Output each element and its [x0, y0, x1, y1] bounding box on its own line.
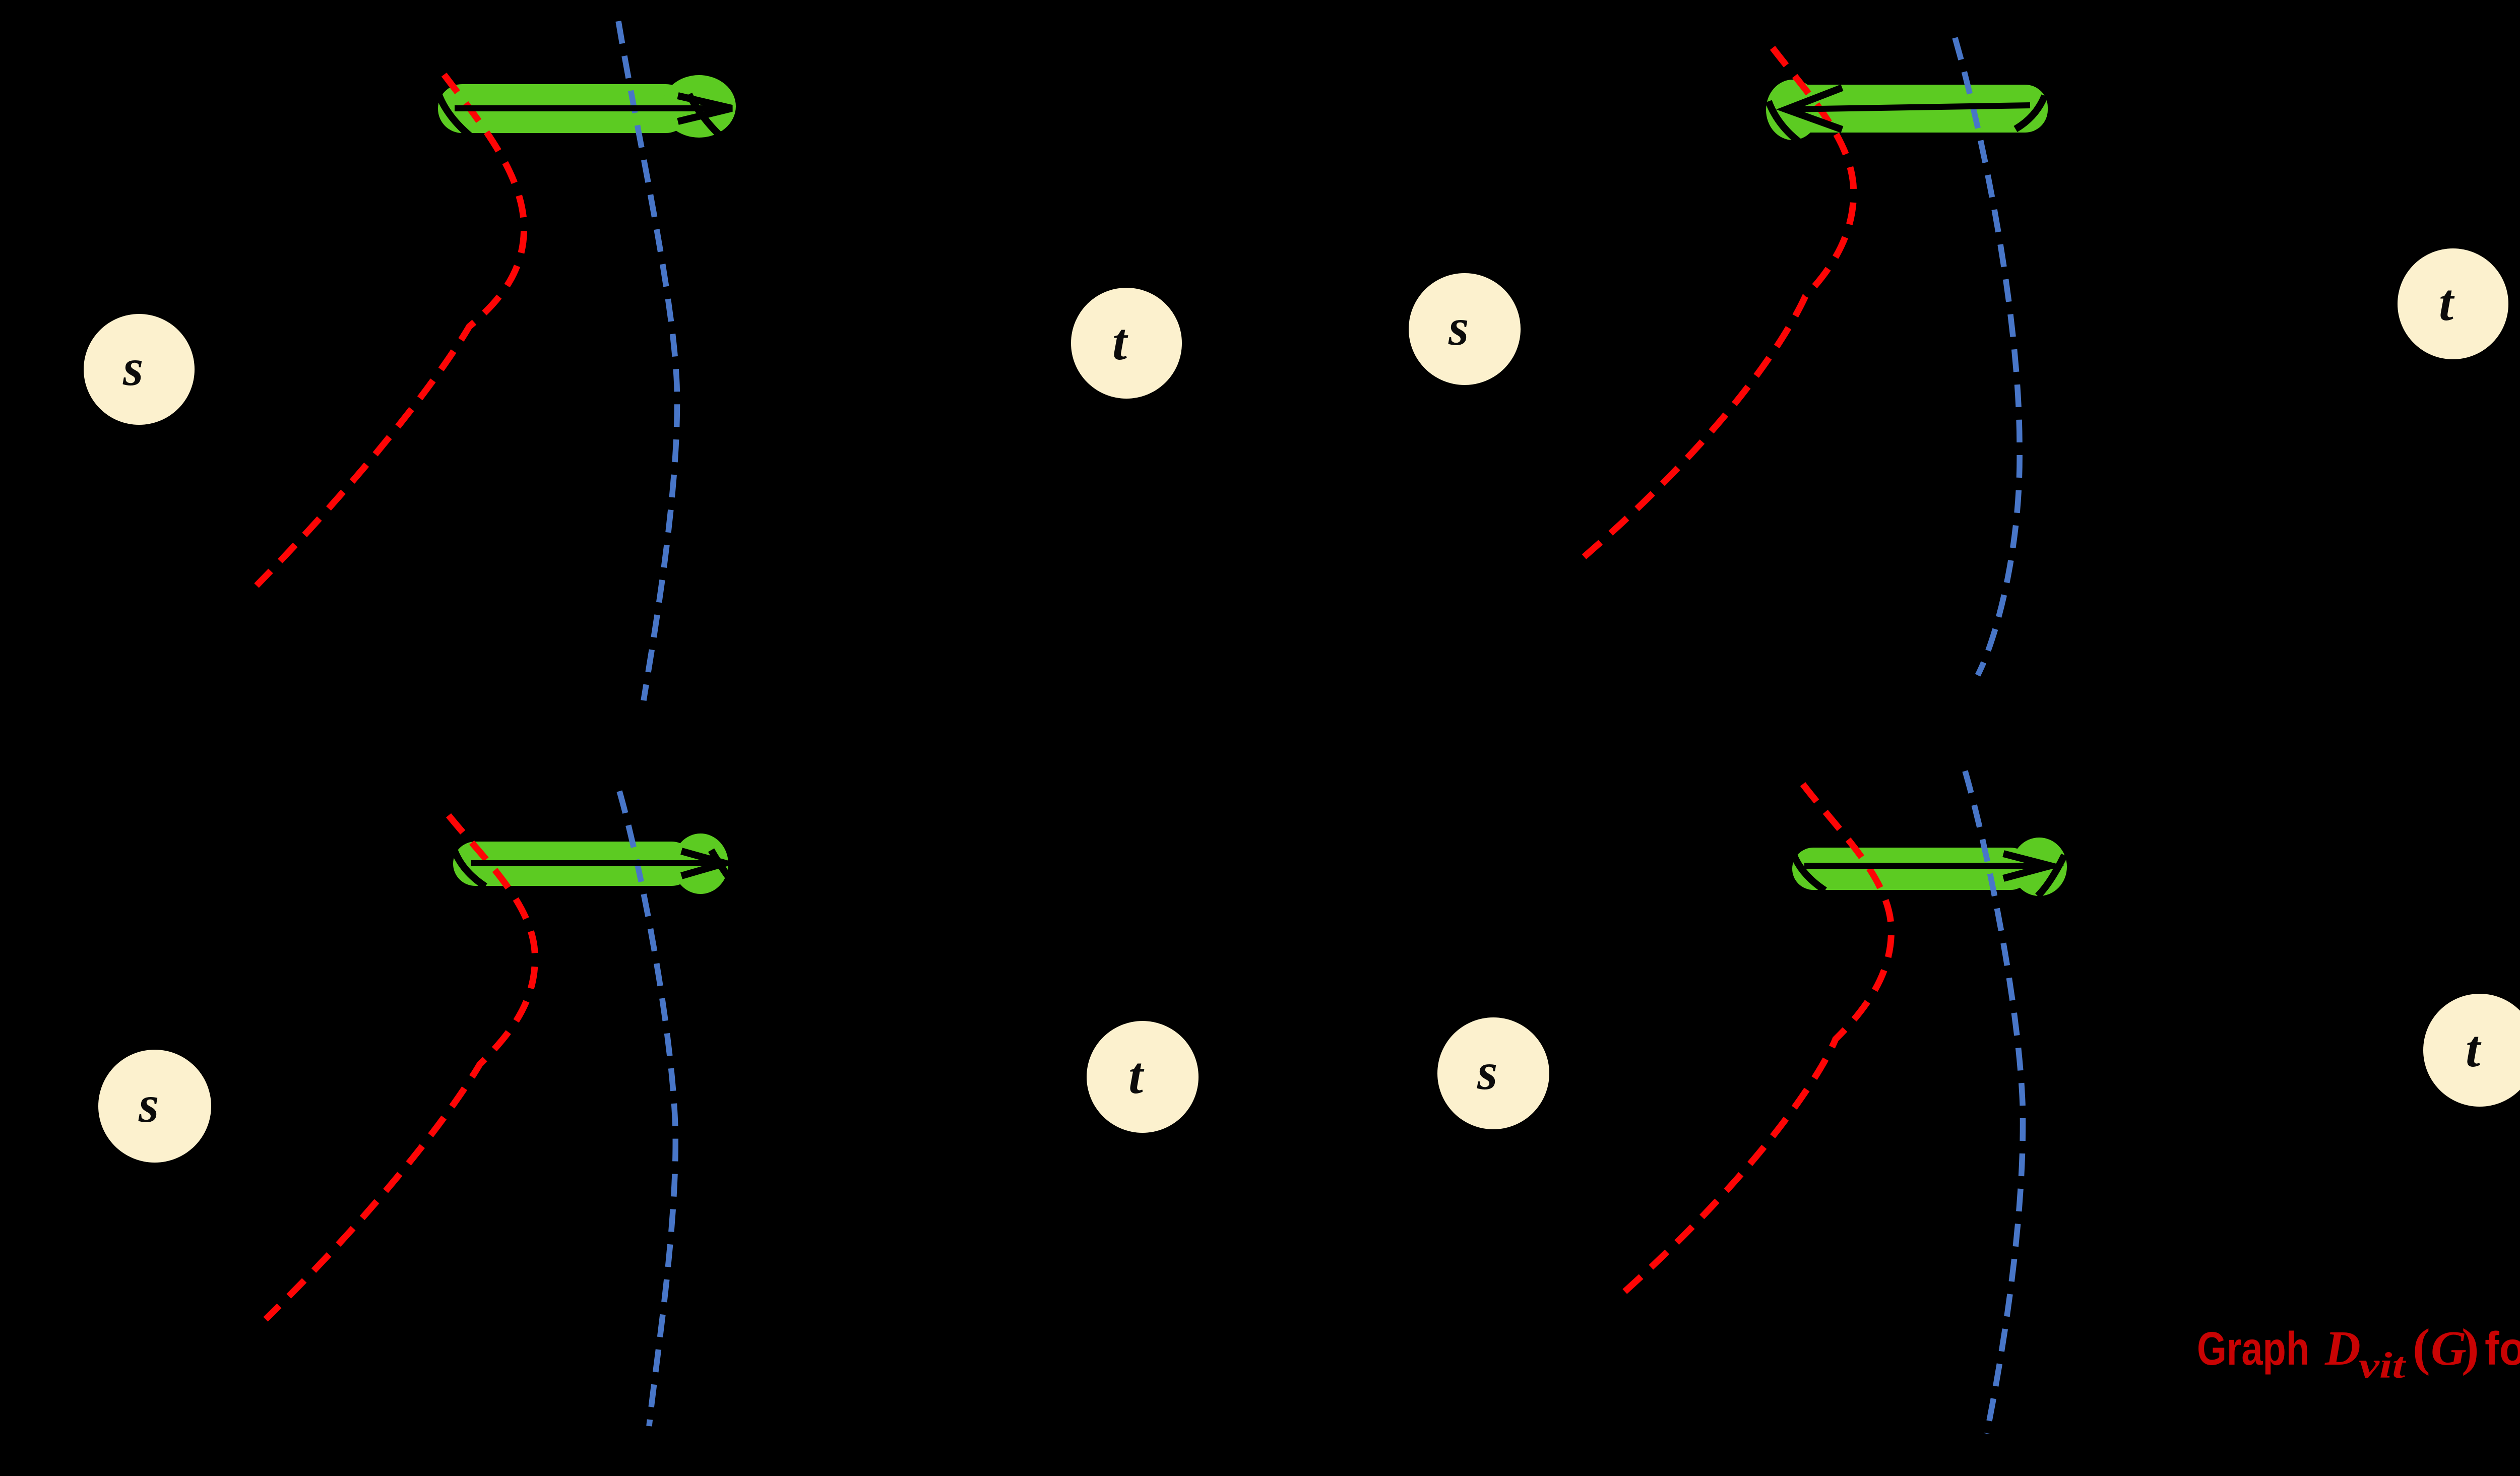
- black cut arc at edge head: [711, 850, 739, 891]
- black arrowhead chevron: [678, 96, 732, 121]
- node s (panel 4): [1437, 1017, 1549, 1129]
- black edge center line: [455, 105, 730, 111]
- svg-text:(: (: [2413, 1318, 2430, 1376]
- green highlighted edge (pill body): [1784, 85, 2048, 133]
- green arrowhead blob: [662, 75, 736, 138]
- black cut arc at edge tail: [2015, 96, 2045, 129]
- svg-text:t: t: [1112, 313, 1128, 371]
- svg-text:D: D: [2324, 1321, 2361, 1376]
- blue dashed dual path: [619, 791, 675, 1426]
- black cut arc at edge tail: [1793, 854, 1825, 890]
- black edge center line: [471, 860, 722, 866]
- black edge center line: [1788, 105, 2030, 109]
- svg-text:): ): [2462, 1318, 2479, 1376]
- node s (panel 3): [98, 1050, 211, 1163]
- svg-text:s: s: [1448, 298, 1469, 356]
- black cut arc at arrow end: [1769, 101, 1799, 142]
- svg-text:t: t: [2439, 274, 2455, 332]
- svg-text:vit: vit: [2359, 1345, 2407, 1386]
- node t (panel 2): [2398, 248, 2508, 359]
- green highlighted edge e (pill body): [438, 84, 690, 133]
- black cut arc at edge head: [689, 94, 725, 140]
- black arrowhead chevron: [2003, 854, 2050, 878]
- green highlighted edge (pill body): [1792, 848, 2032, 890]
- node t (panel 1): [1071, 288, 1182, 399]
- green arrowhead blob: [673, 833, 728, 894]
- green arrowhead blob (left end): [1766, 80, 1819, 140]
- svg-text:s: s: [122, 339, 143, 397]
- black arrowhead chevron (points left): [1786, 88, 1842, 130]
- red dashed dual path (E_min cut): [257, 75, 524, 586]
- red dashed dual path: [1584, 48, 1854, 557]
- svg-text:s: s: [1477, 1043, 1497, 1101]
- svg-text:for: for: [2485, 1322, 2520, 1375]
- svg-text:Graph: Graph: [2197, 1322, 2309, 1375]
- red dashed dual path: [266, 815, 535, 1319]
- node t (panel 3): [1087, 1021, 1199, 1133]
- svg-text:t: t: [1128, 1047, 1145, 1105]
- green highlighted edge (pill body): [453, 842, 694, 886]
- black cut arc at edge head: [2038, 855, 2064, 896]
- green arrowhead blob: [2011, 838, 2067, 896]
- red dashed dual path: [1616, 784, 1891, 1299]
- black arrowhead chevron: [681, 851, 725, 876]
- node s (panel 2): [1409, 273, 1521, 385]
- red caption: Graph D_vit(G) for E_min: [2197, 1318, 2520, 1386]
- svg-text:t: t: [2466, 1020, 2482, 1078]
- svg-text:s: s: [138, 1075, 159, 1133]
- black cut arc at edge tail: [454, 850, 485, 886]
- blue dashed dual path: [1965, 771, 2023, 1434]
- black edge center line: [1804, 863, 2047, 869]
- node s (panel 1): [84, 314, 195, 425]
- node t (panel 4): [2423, 994, 2520, 1107]
- black cut arc at edge tail: [438, 94, 470, 136]
- blue dashed dual path: [1955, 38, 2020, 675]
- blue dashed dual path: [618, 21, 677, 700]
